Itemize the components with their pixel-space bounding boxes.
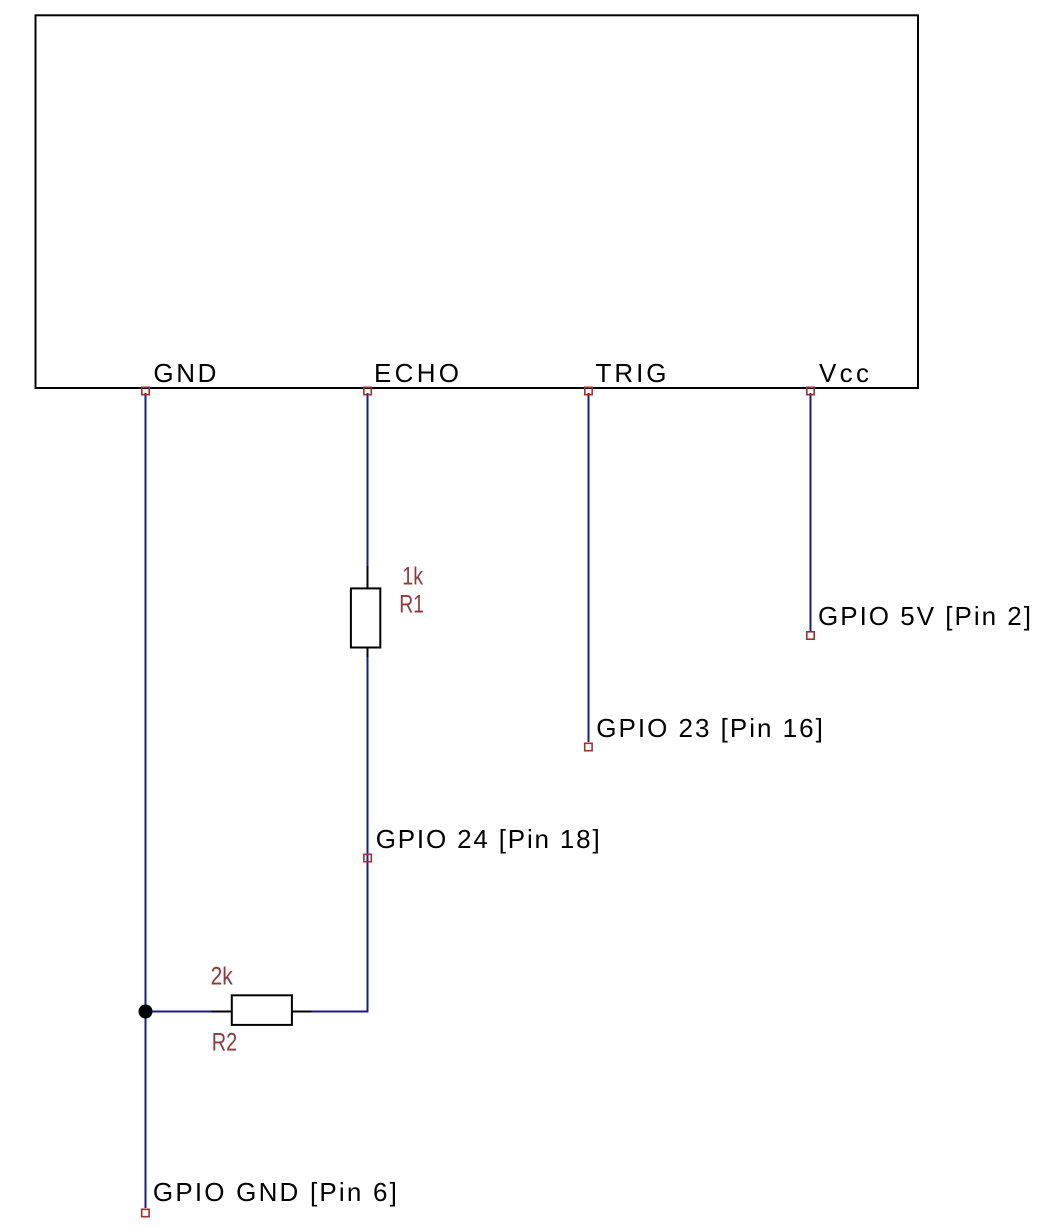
svg-text:ECHO: ECHO bbox=[374, 358, 459, 388]
sensor body U1 (HC-SR04 outline) bbox=[36, 15, 919, 388]
resistor R2 lead right bbox=[293, 1011, 312, 1013]
wire ECHO net: sensor ECHO pin down to R1 bbox=[367, 393, 369, 567]
pin square sensor ECHO bbox=[364, 387, 371, 394]
wire GND junction to R2 left lead bbox=[146, 1011, 213, 1013]
resistor R1 lead bottom bbox=[367, 648, 369, 657]
pin square GPIO 23 end bbox=[585, 743, 592, 750]
pin square sensor TRIG bbox=[585, 387, 592, 394]
junction dot GND/R2 node bbox=[139, 1005, 153, 1019]
pin square GPIO GND end bbox=[142, 1209, 149, 1216]
pin square GPIO 24 tap bbox=[364, 854, 371, 861]
resistor R1 lead top bbox=[367, 566, 369, 588]
svg-text:2k: 2k bbox=[211, 963, 234, 991]
svg-text:1k: 1k bbox=[402, 563, 423, 591]
svg-text:Vcc: Vcc bbox=[819, 358, 869, 388]
svg-text:GPIO 5V [Pin 2]: GPIO 5V [Pin 2] bbox=[818, 601, 1031, 631]
wire TRIG net: sensor TRIG pin down to GPIO 23 bbox=[588, 393, 590, 742]
pin square sensor GND bbox=[142, 387, 149, 394]
pin square sensor Vcc bbox=[807, 387, 814, 394]
resistor R2 lead left bbox=[212, 1011, 232, 1013]
resistor R1 body bbox=[351, 588, 380, 647]
wire ECHO net: R1 bottom down to corner at R2 level bbox=[311, 656, 368, 1012]
svg-text:R1: R1 bbox=[399, 591, 424, 619]
svg-text:GPIO 24 [Pin 18]: GPIO 24 [Pin 18] bbox=[376, 824, 600, 854]
svg-text:GPIO 23 [Pin 16]: GPIO 23 [Pin 16] bbox=[596, 713, 823, 743]
svg-text:GPIO GND [Pin 6]: GPIO GND [Pin 6] bbox=[153, 1177, 397, 1207]
svg-text:R2: R2 bbox=[212, 1029, 238, 1057]
resistor R2 body bbox=[232, 995, 292, 1025]
svg-text:GND: GND bbox=[153, 358, 216, 388]
wire GND net: sensor GND pin down to GPIO GND bbox=[145, 393, 147, 1208]
wire Vcc net: sensor Vcc pin down to GPIO 5V bbox=[810, 393, 812, 631]
pin square GPIO 5V end bbox=[807, 632, 814, 639]
svg-text:TRIG: TRIG bbox=[596, 358, 667, 388]
